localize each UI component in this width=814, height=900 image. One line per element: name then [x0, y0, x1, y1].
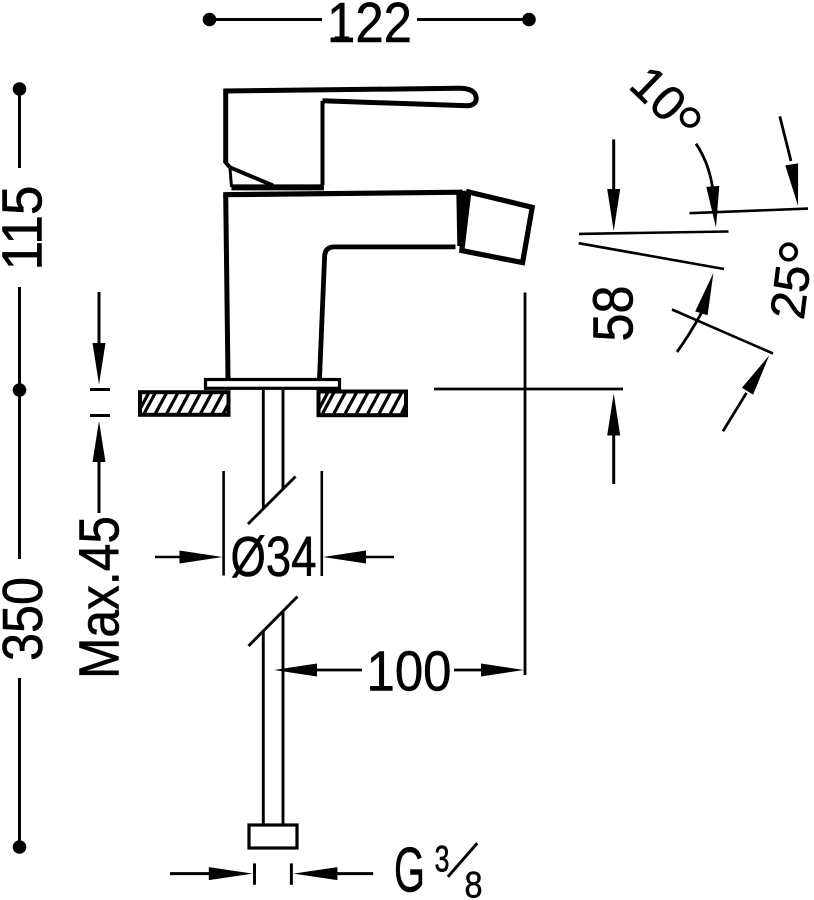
dim 100 right arrowhead: [481, 664, 524, 677]
countertop left block: [139, 392, 229, 415]
angle reference lines: [579, 209, 808, 354]
dim 100 left arrowhead: [274, 664, 317, 677]
handle lower slant: [230, 167, 273, 185]
diagonal leader shaft to line C: [780, 116, 791, 161]
serif foot of first 1 in 115: [37, 247, 41, 261]
pipe break slash upper: [248, 477, 296, 525]
spout tip square: [462, 192, 532, 263]
dim 115 bottom dot: [13, 383, 27, 397]
dim Max.45 lower tick: [90, 414, 110, 417]
dimension 100: [274, 293, 525, 677]
dim 58 up arrowhead: [607, 394, 620, 436]
dim Max.45 upper shaft: [98, 292, 101, 346]
handle front vertical edge: [321, 101, 325, 185]
svg-text:58: 58: [582, 286, 645, 342]
handle lever top edge and hook tip: [224, 88, 476, 106]
dimension G3/8: [170, 863, 373, 884]
dim 115 lower line segment: [18, 287, 21, 390]
dim 122 right end dot: [522, 13, 536, 27]
handle bottom thick bar: [231, 184, 324, 190]
hatching left: [139, 393, 229, 415]
serif foot of second 1 in 115: [37, 222, 41, 236]
handle small triangle edge: [230, 168, 232, 187]
dim G38 right tick: [290, 863, 293, 884]
base plate: [206, 380, 340, 389]
serif foot of 1 in 10deg: [633, 90, 643, 100]
dim 100 right shaft: [454, 669, 484, 672]
svg-text:Max.45: Max.45: [68, 516, 131, 679]
svg-text:8: 8: [465, 864, 483, 900]
faucet body: [223, 191, 532, 379]
fraction slash: [448, 843, 477, 877]
hatching right: [319, 392, 407, 414]
pipe break slash lower: [249, 597, 298, 647]
dim D34 left extension line: [222, 471, 225, 576]
top right diagonal arrow: [780, 116, 798, 205]
dim 100 left shaft: [314, 669, 362, 672]
body left edge: [226, 195, 228, 379]
dim G38 left tick: [253, 863, 256, 884]
countertop right block: [319, 392, 407, 416]
25deg curved leader to line B: [677, 273, 713, 352]
dim G38 right shaft: [334, 872, 373, 875]
dim 10deg arc: [696, 144, 714, 196]
dimension 122 top: [203, 13, 536, 27]
dim 115 top dot: [13, 82, 27, 96]
dim Max.45 up arrowhead: [93, 421, 106, 462]
dim 350 bottom dot: [13, 840, 27, 854]
dim D34 right arrowhead: [323, 551, 366, 564]
pipe left wall upper segment: [262, 390, 265, 508]
curved leader arrowhead to line B: [695, 273, 713, 315]
dim 122 left line segment: [210, 18, 323, 21]
svg-text:122: 122: [327, 0, 412, 54]
bottom fitting: [249, 825, 297, 848]
leader shaft to line D: [723, 393, 747, 432]
dim 115 upper line segment: [18, 89, 21, 168]
line D 25deg: [672, 310, 773, 354]
supply pipe: [248, 390, 298, 824]
dim 58 lower shaft: [612, 432, 615, 484]
leader arrowhead to line D: [742, 355, 769, 394]
degree circle of 10deg: [682, 109, 699, 126]
svg-text:350: 350: [0, 577, 54, 661]
dim G38 right arrowhead: [293, 867, 337, 880]
svg-text:100: 100: [367, 640, 452, 703]
dim 350 lower line segment: [18, 678, 21, 847]
dim D34 right extension line: [320, 471, 323, 576]
serif foot of 1 in 122: [335, 36, 349, 40]
serif feet for digit 1 glyphs: [39, 39, 643, 689]
faucet handle: [224, 88, 476, 187]
dimension Max.45: [90, 292, 110, 513]
spout joint band: [461, 191, 462, 246]
dim 58 upper shaft: [612, 139, 615, 192]
dimension 58: [607, 139, 620, 484]
arrow to line D: [723, 355, 769, 431]
line C upper right: [690, 209, 809, 214]
dim 58 down arrowhead: [607, 189, 620, 231]
pipe left wall lower segment: [262, 631, 265, 824]
degree circle of 25deg: [781, 244, 797, 260]
svg-text:115: 115: [0, 186, 54, 271]
handle left edge: [223, 89, 228, 163]
dim G38 left shaft: [170, 872, 212, 875]
svg-text:Ø34: Ø34: [231, 525, 317, 588]
dim D34 right shaft: [363, 556, 394, 559]
10deg arc leader: [696, 144, 719, 228]
diagonal leader arrowhead to line C: [785, 163, 798, 206]
serif foot of 1 in 100: [374, 686, 388, 690]
pipe right wall lower segment: [282, 612, 285, 824]
handle left bend: [225, 162, 230, 168]
dim D34 left shaft: [155, 556, 183, 559]
dim G38 left arrowhead: [209, 867, 253, 880]
dimension D34: [155, 471, 394, 576]
pipe right wall upper segment: [282, 390, 285, 489]
spout underside: [320, 247, 456, 379]
spout tip extension line: [524, 293, 527, 676]
curved leader arc to line B: [677, 312, 702, 352]
countertop reference line right: [434, 388, 623, 391]
svg-text:3: 3: [435, 839, 450, 880]
body top edge: [223, 192, 462, 195]
line A outlet plane: [579, 232, 729, 234]
line B 10deg: [579, 243, 724, 269]
svg-text:25: 25: [761, 262, 814, 322]
dimension 350 left: [13, 390, 27, 854]
dimension 115 left: [13, 82, 27, 397]
dim 122 right line segment: [417, 18, 529, 21]
dim 122 left end dot: [203, 13, 217, 27]
dim Max.45 down arrowhead: [93, 343, 106, 385]
dim D34 left arrowhead: [180, 551, 223, 564]
svg-text:G: G: [394, 835, 425, 900]
dim 10deg arc arrowhead: [706, 186, 719, 228]
dim Max.45 upper tick: [90, 388, 110, 391]
dim Max.45 lower shaft: [98, 459, 101, 513]
dim 350 upper line segment: [18, 390, 21, 559]
